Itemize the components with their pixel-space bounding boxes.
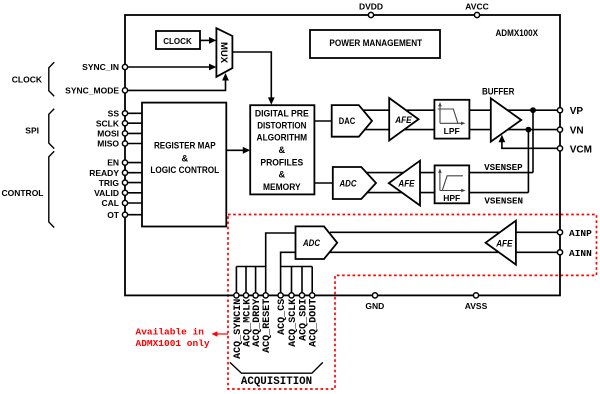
svg-text:SYNC_MODE: SYNC_MODE — [65, 86, 119, 96]
svg-text:MUX: MUX — [218, 42, 229, 64]
svg-text:VP: VP — [570, 106, 584, 117]
svg-text:VALID: VALID — [94, 188, 119, 198]
svg-text:CLOCK: CLOCK — [12, 74, 43, 84]
svg-text:AFE: AFE — [398, 178, 416, 188]
svg-text:AFE: AFE — [495, 239, 513, 249]
svg-text:ACQ_SCLK: ACQ_SCLK — [288, 299, 299, 347]
svg-text:ACQ_RESET: ACQ_RESET — [262, 299, 273, 353]
svg-text:BUFFER: BUFFER — [482, 86, 515, 96]
svg-text:SS: SS — [108, 108, 120, 118]
svg-text:AINN: AINN — [569, 248, 592, 259]
svg-text:ACQUISITION: ACQUISITION — [241, 376, 312, 388]
svg-text:REGISTER MAP: REGISTER MAP — [154, 140, 216, 150]
svg-text:&: & — [278, 170, 285, 180]
svg-text:GND: GND — [365, 301, 384, 311]
svg-text:ADC: ADC — [339, 178, 357, 188]
svg-text:SYNC_IN: SYNC_IN — [82, 62, 119, 72]
svg-text:LOGIC CONTROL: LOGIC CONTROL — [150, 165, 219, 175]
svg-text:DAC: DAC — [339, 116, 356, 126]
svg-text:ACQ_CS: ACQ_CS — [277, 299, 288, 335]
svg-text:SPI: SPI — [25, 126, 39, 136]
svg-text:&: & — [181, 153, 188, 163]
svg-text:VN: VN — [570, 125, 584, 136]
svg-text:DVDD: DVDD — [359, 2, 383, 12]
svg-text:CLOCK: CLOCK — [163, 36, 192, 46]
svg-text:VSENSEP: VSENSEP — [484, 162, 523, 173]
svg-text:ADC: ADC — [302, 238, 320, 248]
svg-text:ACQ_DOUT: ACQ_DOUT — [309, 299, 320, 347]
svg-text:AVCC: AVCC — [465, 2, 488, 12]
svg-text:HPF: HPF — [443, 193, 460, 203]
svg-text:ALGORITHM: ALGORITHM — [257, 133, 308, 143]
svg-text:OT: OT — [107, 210, 120, 220]
svg-text:DISTORTION: DISTORTION — [257, 121, 307, 131]
svg-text:AINP: AINP — [569, 228, 592, 239]
svg-text:LPF: LPF — [444, 126, 460, 136]
svg-text:READY: READY — [89, 168, 119, 178]
svg-text:SCLK: SCLK — [96, 118, 120, 128]
svg-text:EN: EN — [107, 158, 119, 168]
svg-text:MISO: MISO — [97, 139, 119, 149]
svg-text:DIGITAL PRE: DIGITAL PRE — [255, 109, 309, 119]
svg-text:MOSI: MOSI — [97, 129, 119, 139]
svg-text:VCM: VCM — [570, 144, 592, 155]
svg-text:PROFILES: PROFILES — [260, 157, 303, 167]
svg-text:CAL: CAL — [102, 198, 119, 208]
svg-text:TRIG: TRIG — [99, 178, 120, 188]
svg-text:ADMX1001 only: ADMX1001 only — [136, 338, 210, 349]
svg-text:CONTROL: CONTROL — [1, 188, 43, 198]
svg-text:AVSS: AVSS — [465, 301, 488, 311]
svg-text:MEMORY: MEMORY — [263, 182, 301, 192]
svg-text:ADMX100X: ADMX100X — [496, 28, 539, 38]
svg-text:VSENSEN: VSENSEN — [484, 195, 523, 206]
svg-text:Available in: Available in — [136, 327, 205, 338]
svg-text:POWER MANAGEMENT: POWER MANAGEMENT — [329, 38, 422, 48]
svg-text:&: & — [278, 145, 285, 155]
svg-text:AFE: AFE — [394, 115, 412, 125]
